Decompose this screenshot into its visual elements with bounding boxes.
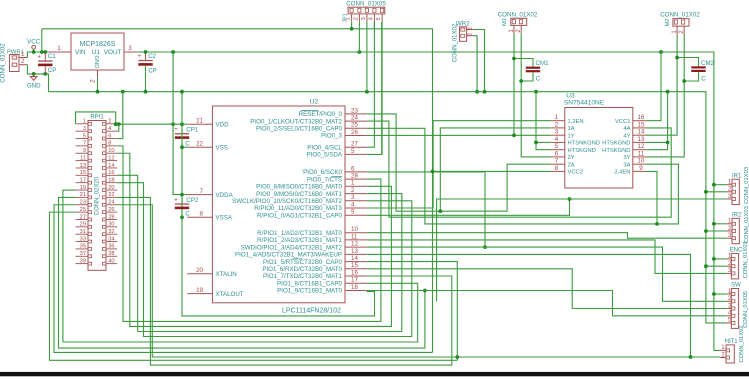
svg-text:PIO0_7/CTS: PIO0_7/CTS bbox=[307, 176, 342, 183]
svg-text:ENC: ENC bbox=[730, 248, 743, 254]
svg-text:11: 11 bbox=[80, 155, 86, 161]
svg-text:3: 3 bbox=[555, 129, 559, 136]
svg-text:31: 31 bbox=[80, 229, 86, 235]
wire GND drop to IR2 pin2 bbox=[704, 229, 726, 233]
svg-text:19: 19 bbox=[196, 287, 203, 294]
svg-text:11: 11 bbox=[351, 233, 358, 240]
svg-text:27: 27 bbox=[80, 214, 86, 220]
svg-text:15: 15 bbox=[351, 262, 358, 269]
svg-text:CONN_01X02: CONN_01X02 bbox=[739, 325, 745, 362]
svg-text:CONN_01X02: CONN_01X02 bbox=[498, 11, 538, 18]
svg-text:9: 9 bbox=[639, 165, 643, 172]
svg-text:5: 5 bbox=[351, 148, 355, 155]
svg-text:C2: C2 bbox=[148, 53, 156, 60]
svg-text:8: 8 bbox=[108, 141, 111, 147]
svg-text:3,4EN: 3,4EN bbox=[614, 170, 630, 176]
wire M2 pin2 to U3 3Y bbox=[646, 36, 684, 157]
svg-text:2: 2 bbox=[468, 33, 474, 36]
svg-text:C1: C1 bbox=[48, 53, 56, 60]
ground symbol GND bbox=[27, 74, 41, 90]
svg-text:13: 13 bbox=[351, 248, 358, 255]
svg-text:XTALOUT: XTALOUT bbox=[216, 291, 244, 298]
svg-text:'PIO0_6/SCK0: 'PIO0_6/SCK0 bbox=[302, 169, 343, 176]
svg-text:CONN_01X05: CONN_01X05 bbox=[346, 1, 386, 8]
svg-text:14: 14 bbox=[108, 163, 114, 169]
svg-text:34: 34 bbox=[108, 236, 114, 242]
svg-text:24: 24 bbox=[351, 115, 358, 122]
svg-text:33: 33 bbox=[80, 236, 86, 242]
svg-text:PIO1_9/CT16B1_MAT0: PIO1_9/CT16B1_MAT0 bbox=[277, 288, 342, 295]
svg-text:VCC: VCC bbox=[27, 38, 41, 45]
capacitor CM1 bbox=[512, 57, 549, 83]
svg-text:CM2: CM2 bbox=[701, 60, 715, 67]
svg-text:30: 30 bbox=[108, 222, 114, 228]
svg-text:C: C bbox=[701, 76, 706, 83]
svg-text:1: 1 bbox=[351, 180, 355, 187]
connector M1 CONN_01X02 bbox=[498, 11, 538, 33]
connector WR2 CONN_01X02 bbox=[453, 20, 474, 62]
wire RPI1 pin18 to U2 PIO0_10 bbox=[117, 183, 412, 337]
svg-text:+: + bbox=[174, 126, 178, 133]
svg-text:PIO1_7/TXD/CT32B0_MAT1: PIO1_7/TXD/CT32B0_MAT1 bbox=[263, 273, 343, 280]
svg-text:PIO0_1/CLKOUT/CT32B0_MAT2: PIO0_1/CLKOUT/CT32B0_MAT2 bbox=[250, 118, 342, 125]
svg-text:PIO0_9/MOSI0/CT16B0_MAT1: PIO0_9/MOSI0/CT16B0_MAT1 bbox=[256, 191, 342, 198]
wire ISP pin3 to GND rail bbox=[366, 22, 368, 92]
svg-text:CP: CP bbox=[148, 67, 157, 74]
wire ISP pin2 to VCC rail bbox=[358, 22, 360, 52]
svg-text:26: 26 bbox=[351, 129, 358, 136]
svg-text:C: C bbox=[185, 211, 190, 218]
wire VCC to VDD/VDDA drop bbox=[171, 50, 187, 195]
svg-text:C: C bbox=[536, 76, 541, 83]
wire ISP pin1 to top rail bbox=[350, 22, 354, 31]
svg-text:1: 1 bbox=[468, 27, 474, 30]
wire U2 pin10 to IR2 pin3 bbox=[367, 233, 727, 239]
wire U2 pin18 to SW pin4 bbox=[367, 291, 727, 316]
svg-text:XTALIN: XTALIN bbox=[216, 271, 237, 278]
wire RPI1 pin19 to U2 PIO1_8 bbox=[63, 190, 418, 342]
svg-text:VOUT: VOUT bbox=[104, 49, 122, 56]
svg-text:23: 23 bbox=[351, 107, 358, 114]
svg-text:17: 17 bbox=[351, 277, 358, 284]
svg-text:VSSA: VSSA bbox=[216, 215, 233, 222]
wire U2 pin27 to ISP pin4 bbox=[367, 22, 375, 148]
wire RPI1 pin16 to U2 PIO0_9 bbox=[117, 175, 402, 331]
svg-text:2: 2 bbox=[21, 58, 25, 65]
svg-text:R/PIO1_2/AD3/CT32B1_MAT1: R/PIO1_2/AD3/CT32B1_MAT1 bbox=[257, 237, 342, 244]
svg-text:15: 15 bbox=[80, 170, 86, 176]
wire PWR1 pin1 to VCC net bbox=[27, 52, 48, 58]
svg-text:2: 2 bbox=[555, 121, 559, 128]
svg-text:7: 7 bbox=[555, 158, 559, 165]
svg-text:7: 7 bbox=[200, 188, 204, 195]
microcontroller U2 LPC1114FN28/102 bbox=[187, 99, 366, 315]
svg-text:2A: 2A bbox=[568, 162, 575, 168]
svg-text:R/PIO1_1/AD2/CT32B1_MAT0: R/PIO1_1/AD2/CT32B1_MAT0 bbox=[257, 230, 342, 237]
svg-text:WR2: WR2 bbox=[456, 20, 470, 27]
svg-text:3: 3 bbox=[128, 45, 132, 52]
svg-text:PIO1_5/RTS/CT32B0_CAP0: PIO1_5/RTS/CT32B0_CAP0 bbox=[263, 259, 343, 266]
svg-text:HTSKGND: HTSKGND bbox=[568, 148, 596, 154]
wire U3 VCC1 to VCC rail bbox=[646, 52, 661, 121]
svg-text:9: 9 bbox=[83, 148, 86, 154]
svg-text:4Y: 4Y bbox=[623, 133, 630, 139]
svg-text:10: 10 bbox=[638, 158, 645, 165]
wire U2 pin14 to long net bbox=[367, 262, 458, 361]
node GND junction at PWR1 bbox=[32, 72, 47, 76]
svg-text:4: 4 bbox=[368, 17, 374, 20]
wire RPI1 pin1 over-the-top to pin2 bbox=[76, 112, 116, 124]
svg-text:21: 21 bbox=[196, 118, 203, 125]
wire WR2 pin1 to GND rail bbox=[474, 30, 485, 92]
svg-text:38: 38 bbox=[108, 251, 114, 257]
svg-text:12: 12 bbox=[108, 155, 114, 161]
svg-text:1: 1 bbox=[83, 119, 86, 125]
svg-text:3: 3 bbox=[351, 194, 355, 201]
wire U2 pin25 to U3 3A bbox=[367, 128, 679, 224]
node VSS junctions bbox=[180, 145, 184, 219]
svg-text:1: 1 bbox=[346, 17, 352, 20]
svg-text:5: 5 bbox=[376, 17, 382, 20]
svg-text:17: 17 bbox=[80, 177, 86, 183]
svg-text:HTSKGND: HTSKGND bbox=[602, 148, 630, 154]
wire U3 VCC2 to top-rail drop bbox=[431, 170, 552, 174]
svg-text:SWCLK/PIO0_10/SCK0/CT16B0_MAT2: SWCLK/PIO0_10/SCK0/CT16B0_MAT2 bbox=[232, 198, 342, 205]
wire U2 pin4 to U3 1,2EN bbox=[367, 121, 552, 208]
svg-text:U2: U2 bbox=[310, 99, 319, 106]
svg-text:20: 20 bbox=[108, 185, 114, 191]
svg-text:16: 16 bbox=[351, 269, 358, 276]
wire WR2 pin2 to GND rail bbox=[474, 36, 478, 92]
svg-text:2Y: 2Y bbox=[568, 155, 575, 161]
node GND rail junctions bbox=[96, 90, 670, 94]
svg-text:6: 6 bbox=[351, 165, 355, 172]
svg-text:10: 10 bbox=[108, 148, 114, 154]
svg-text:VDD: VDD bbox=[216, 121, 230, 128]
svg-text:1Y: 1Y bbox=[568, 133, 575, 139]
wire GND drop to IR1 pin2 bbox=[704, 190, 726, 194]
svg-text:27: 27 bbox=[351, 141, 358, 148]
connector ISP1 CONN_01X05 bbox=[343, 1, 387, 23]
wire RPI1 pin23 to top-rail drop bbox=[54, 205, 433, 353]
wire M2 pin1 to U3 4Y bbox=[646, 36, 677, 136]
wire U3 3,4EN join bbox=[646, 171, 659, 225]
wire VCC rail bbox=[137, 52, 720, 350]
connector IR1 CONN_01X03 bbox=[726, 167, 749, 205]
svg-text:8: 8 bbox=[200, 211, 204, 218]
wire U2 RESET to U3 2A bbox=[367, 114, 552, 211]
wire U2 pin13 to long net bbox=[367, 254, 691, 357]
svg-text:SW: SW bbox=[731, 283, 741, 289]
wire RPI1 pin10 to U2 PIO0_8 bbox=[117, 153, 391, 326]
svg-text:2: 2 bbox=[351, 187, 355, 194]
svg-text:SN754410NE: SN754410NE bbox=[564, 99, 605, 106]
svg-text:14: 14 bbox=[638, 129, 645, 136]
svg-text:4: 4 bbox=[351, 201, 355, 208]
svg-text:28: 28 bbox=[351, 173, 358, 180]
svg-text:+: + bbox=[138, 53, 142, 60]
wire VCC drop to IR1 pin1 bbox=[712, 183, 726, 187]
node long net junctions bbox=[455, 355, 692, 359]
svg-text:12: 12 bbox=[351, 241, 358, 248]
svg-text:10: 10 bbox=[351, 226, 358, 233]
svg-text:CM1: CM1 bbox=[536, 60, 550, 67]
wire RPI1 pin21 riser bbox=[59, 197, 427, 348]
svg-text:PIO0_4/SCL: PIO0_4/SCL bbox=[307, 144, 342, 151]
wire U2 pin15 to SW pin3 bbox=[367, 269, 727, 309]
svg-text:3: 3 bbox=[83, 126, 86, 132]
connector SW CONN_01X05 bbox=[726, 283, 749, 329]
wire IR1 pin3 long net bbox=[437, 199, 727, 301]
svg-text:22: 22 bbox=[196, 141, 203, 148]
connector IR2 CONN_01X03 bbox=[726, 206, 749, 244]
svg-text:CONN_01X05: CONN_01X05 bbox=[743, 291, 749, 328]
svg-text:4: 4 bbox=[108, 126, 111, 132]
svg-text:1A: 1A bbox=[568, 126, 575, 132]
wire RPI1 pin8 to U2 PIO0_7 bbox=[117, 146, 381, 322]
wire U2 pin24 to U3 4A bbox=[367, 121, 672, 217]
svg-text:IR2: IR2 bbox=[732, 213, 742, 219]
svg-text:32: 32 bbox=[108, 229, 114, 235]
svg-text:18: 18 bbox=[351, 284, 358, 291]
svg-text:4: 4 bbox=[555, 136, 559, 143]
svg-text:R/PIO0_11/AD0/CT32B0_MAT3: R/PIO0_11/AD0/CT32B0_MAT3 bbox=[254, 205, 342, 212]
wire U3 left heatsink gnd bbox=[534, 92, 551, 150]
svg-text:15: 15 bbox=[638, 121, 645, 128]
svg-text:HTSKGND: HTSKGND bbox=[602, 141, 630, 147]
svg-text:3: 3 bbox=[361, 17, 367, 20]
connector ENC CONN_01X03 bbox=[726, 241, 749, 279]
svg-text:CP2: CP2 bbox=[186, 197, 199, 204]
svg-text:3A: 3A bbox=[623, 162, 630, 168]
svg-text:25: 25 bbox=[80, 207, 86, 213]
svg-text:36: 36 bbox=[108, 244, 114, 250]
svg-text:21: 21 bbox=[80, 192, 86, 198]
connector HIT1 CONN_01X02 bbox=[720, 325, 745, 363]
svg-text:HTSNKGND: HTSNKGND bbox=[568, 141, 601, 147]
svg-text:16: 16 bbox=[108, 170, 114, 176]
svg-text:PIO1_6/RXD/CT32B0_MAT0: PIO1_6/RXD/CT32B0_MAT0 bbox=[262, 266, 342, 273]
svg-text:25: 25 bbox=[351, 122, 358, 129]
wire VCC drop to SW pin1 bbox=[712, 292, 726, 296]
motor driver U3 SN754410NE bbox=[551, 93, 646, 189]
svg-text:VCC1: VCC1 bbox=[615, 119, 630, 125]
svg-text:23: 23 bbox=[80, 200, 86, 206]
svg-text:1: 1 bbox=[57, 45, 61, 52]
svg-text:HIT1: HIT1 bbox=[725, 339, 739, 345]
svg-text:CONN_01X03: CONN_01X03 bbox=[743, 241, 749, 278]
svg-text:C: C bbox=[185, 140, 190, 147]
svg-text:35: 35 bbox=[80, 244, 86, 250]
svg-text:6: 6 bbox=[555, 150, 559, 157]
svg-text:VIN: VIN bbox=[75, 49, 86, 56]
wire U3 right heatsink gnd bbox=[646, 92, 669, 150]
svg-text:6: 6 bbox=[108, 133, 111, 139]
wire M1 pin2 to U3 2Y bbox=[521, 34, 551, 157]
wire U3 1A west riser bbox=[438, 128, 551, 213]
svg-text:PIO0_5/SDA: PIO0_5/SDA bbox=[307, 152, 343, 159]
wire VCC riser to top rail bbox=[41, 29, 43, 52]
wire U2 pin5 to ISP pin5 bbox=[367, 22, 382, 155]
svg-text:40: 40 bbox=[108, 258, 114, 264]
svg-text:MCP1826S: MCP1826S bbox=[80, 41, 116, 48]
wire RPI1 pin6 to GND rail bbox=[117, 92, 123, 139]
svg-text:7: 7 bbox=[83, 141, 86, 147]
wire U2 VSS net bbox=[180, 90, 374, 316]
node VCC rail junctions bbox=[144, 50, 663, 54]
svg-text:CONN_01X03: CONN_01X03 bbox=[744, 167, 749, 204]
svg-text:1: 1 bbox=[555, 114, 559, 121]
svg-text:VSS: VSS bbox=[216, 144, 228, 151]
svg-text:PIO0_2/SSEL0/CT16B0_CAP0: PIO0_2/SSEL0/CT16B0_CAP0 bbox=[256, 126, 343, 133]
svg-text:13: 13 bbox=[638, 136, 645, 143]
svg-text:39: 39 bbox=[80, 258, 86, 264]
svg-text:LPC1114FN28/102: LPC1114FN28/102 bbox=[282, 308, 341, 315]
capacitor C1 bbox=[37, 52, 56, 74]
wire M1 pin1 to U3 1Y bbox=[512, 34, 516, 138]
node VDD junctions bbox=[114, 122, 184, 126]
svg-text:+: + bbox=[37, 54, 41, 61]
wire RPI1 pin22 to U2 PIO1_7 bbox=[117, 197, 452, 365]
svg-text:29: 29 bbox=[80, 222, 86, 228]
wire U2 pin11 to ENC pin3 bbox=[367, 240, 727, 274]
svg-text:1,2EN: 1,2EN bbox=[568, 119, 584, 125]
wire RPI1 pin24 long net to HIT1 pin2 bbox=[117, 205, 720, 357]
capacitor CP2 bbox=[174, 195, 199, 218]
svg-text:2: 2 bbox=[353, 17, 359, 20]
svg-text:CONN_01X02: CONN_01X02 bbox=[453, 23, 459, 62]
connector M2 CONN_01X02 bbox=[660, 11, 700, 35]
svg-text:4A: 4A bbox=[623, 126, 630, 132]
wire VCC drop to ENC pin1 bbox=[712, 257, 726, 261]
svg-text:+: + bbox=[174, 197, 178, 204]
wire ISP pin4 drop bbox=[373, 22, 375, 28]
svg-text:PIO1_8/CT16B1_CAP0: PIO1_8/CT16B1_CAP0 bbox=[277, 281, 343, 288]
svg-text:PIO0_3: PIO0_3 bbox=[321, 133, 343, 140]
wire ISP pin5 drop bbox=[381, 22, 383, 155]
wire U2 pin9 riser bbox=[367, 197, 572, 215]
svg-text:PIO0_8/MISO0/CT16B0_MAT0: PIO0_8/MISO0/CT16B0_MAT0 bbox=[256, 184, 342, 191]
svg-text:SWDIO/PIO1_3/AD4/CT32B1_MAT2: SWDIO/PIO1_3/AD4/CT32B1_MAT2 bbox=[241, 244, 343, 251]
svg-text:22: 22 bbox=[108, 192, 114, 198]
wire VCC drop to IR2 pin1 bbox=[712, 222, 726, 226]
wire RPI1 pin25 bottom loop bbox=[50, 212, 458, 360]
wire U2 PIO0_6 east bbox=[367, 172, 487, 249]
svg-text:M1: M1 bbox=[502, 18, 508, 26]
wire PWR1 pin2 to GND bbox=[27, 65, 48, 92]
svg-text:CP1: CP1 bbox=[186, 127, 199, 134]
svg-text:R/PIO1_0/AD1/CT32B1_CAP0: R/PIO1_0/AD1/CT32B1_CAP0 bbox=[257, 213, 343, 220]
svg-text:19: 19 bbox=[80, 185, 86, 191]
svg-text:5: 5 bbox=[83, 133, 86, 139]
svg-text:18: 18 bbox=[108, 177, 114, 183]
svg-text:20: 20 bbox=[196, 267, 203, 274]
svg-text:5: 5 bbox=[555, 143, 559, 150]
wire U2 pin26 to U3 1Y net bbox=[367, 134, 552, 136]
wire GND rail bbox=[49, 92, 727, 323]
svg-text:24: 24 bbox=[108, 200, 114, 206]
svg-text:8: 8 bbox=[555, 165, 559, 172]
connector PWR1 CONN_01X02 bbox=[0, 43, 27, 83]
svg-text:3Y: 3Y bbox=[623, 155, 630, 161]
svg-text:13: 13 bbox=[80, 163, 86, 169]
wire top rail bbox=[42, 29, 433, 353]
wire U1 GND pin to GND rail bbox=[97, 78, 99, 92]
svg-text:37: 37 bbox=[80, 251, 86, 257]
connector RPI1 CONN_02X20 bbox=[76, 114, 118, 270]
svg-text:CP: CP bbox=[48, 67, 57, 74]
svg-text:CONN_02X20: CONN_02X20 bbox=[95, 176, 101, 215]
capacitor CP1 bbox=[174, 124, 199, 147]
frame bottom bar bbox=[0, 372, 749, 376]
svg-text:CONN_01X02: CONN_01X02 bbox=[0, 43, 7, 83]
power symbol VCC bbox=[27, 38, 41, 52]
svg-text:26: 26 bbox=[108, 207, 114, 213]
svg-text:GND: GND bbox=[27, 83, 41, 90]
svg-text:9: 9 bbox=[351, 209, 355, 216]
svg-text:CONN_01X03: CONN_01X03 bbox=[744, 206, 749, 243]
capacitor C2 bbox=[138, 52, 157, 92]
svg-text:14: 14 bbox=[351, 255, 358, 262]
svg-text:IR1: IR1 bbox=[732, 173, 742, 179]
svg-text:CONN_01X02: CONN_01X02 bbox=[660, 11, 700, 18]
svg-text:16: 16 bbox=[638, 114, 645, 121]
svg-text:2: 2 bbox=[90, 79, 97, 83]
regulator U1 MCP1826S bbox=[48, 33, 137, 83]
wire VDD net RPI1 pin2 to U2 VDD bbox=[116, 123, 188, 125]
wire U2 pin12 to SW pin2 bbox=[367, 247, 727, 301]
svg-text:VDDA: VDDA bbox=[216, 192, 234, 199]
node VCC junctions bbox=[32, 50, 47, 54]
svg-text:PIO1_4/AD5/CT32B1_MAT3/WAKEUP: PIO1_4/AD5/CT32B1_MAT3/WAKEUP bbox=[235, 252, 342, 259]
wire GND drop to ENC pin2 bbox=[704, 264, 726, 268]
svg-text:1: 1 bbox=[21, 51, 25, 58]
capacitor CM2 bbox=[675, 56, 714, 83]
wire RPI1 pin4 to VDD bbox=[117, 124, 119, 131]
svg-text:2: 2 bbox=[108, 119, 111, 125]
svg-text:RESET/PIO0_0: RESET/PIO0_0 bbox=[299, 111, 343, 118]
svg-text:M2: M2 bbox=[665, 18, 671, 26]
svg-text:28: 28 bbox=[108, 214, 114, 220]
svg-text:VCC2: VCC2 bbox=[568, 170, 583, 176]
svg-text:12: 12 bbox=[638, 143, 645, 150]
svg-text:RPI1: RPI1 bbox=[90, 114, 104, 120]
svg-text:11: 11 bbox=[638, 150, 645, 157]
svg-text:GND: GND bbox=[93, 56, 99, 69]
